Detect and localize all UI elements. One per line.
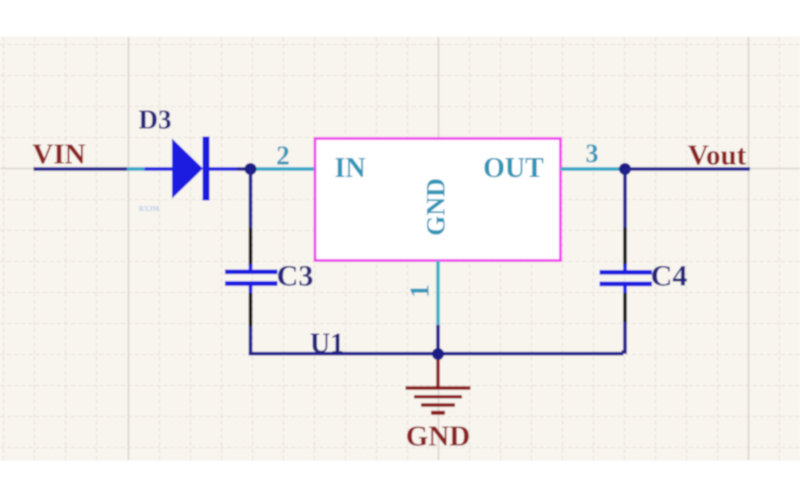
capacitor C3 top pin <box>249 228 253 266</box>
ground symbol bars <box>406 388 471 413</box>
svg-text:Vout: Vout <box>688 140 747 172</box>
svg-text:C3: C3 <box>277 260 314 293</box>
diode D3 <box>172 137 210 201</box>
svg-text:2: 2 <box>276 141 290 171</box>
junction node GND rail <box>432 348 444 360</box>
wire VIN to diode <box>34 167 128 171</box>
svg-text:U1: U1 <box>310 329 344 360</box>
capacitor C3 <box>225 264 278 293</box>
wire pin 3 (cyan) <box>561 167 626 171</box>
wire C3 to ground rail <box>249 326 253 355</box>
junction node 2 <box>245 163 257 175</box>
wire to node 2 <box>237 167 251 171</box>
regulator U1 body <box>315 139 561 261</box>
capacitor C3 bottom pin <box>249 293 253 326</box>
wire cyan segment at VIN port <box>127 167 145 171</box>
wire pin 2 (cyan) <box>251 167 316 171</box>
svg-text:RXJM: RXJM <box>139 205 160 213</box>
svg-text:IN: IN <box>334 153 365 184</box>
svg-text:OUT: OUT <box>483 153 544 184</box>
wire pin 1 (cyan) from regulator <box>436 261 439 325</box>
svg-text:1: 1 <box>405 284 435 298</box>
svg-text:GND: GND <box>406 421 470 453</box>
svg-text:3: 3 <box>586 139 599 168</box>
diode D3 anode pin <box>145 167 173 171</box>
wire node2 down to C3 <box>249 169 253 228</box>
svg-text:GND: GND <box>421 178 450 236</box>
capacitor C4 bottom pin <box>623 293 627 322</box>
capacitor C4 <box>600 264 653 293</box>
wire node3 down to C4 <box>623 169 627 228</box>
svg-text:VIN: VIN <box>32 139 85 171</box>
ground rail wire <box>249 352 624 356</box>
svg-text:C4: C4 <box>651 260 688 293</box>
wire C4 to ground rail <box>623 322 625 354</box>
svg-text:D3: D3 <box>139 105 172 135</box>
capacitor C4 top pin <box>623 228 627 267</box>
diode D3 cathode pin <box>210 167 238 171</box>
junction node 3 <box>619 163 631 175</box>
wire node3 to Vout <box>625 167 750 171</box>
wire pin1 to ground rail <box>436 325 440 354</box>
ground symbol stem <box>436 354 439 387</box>
